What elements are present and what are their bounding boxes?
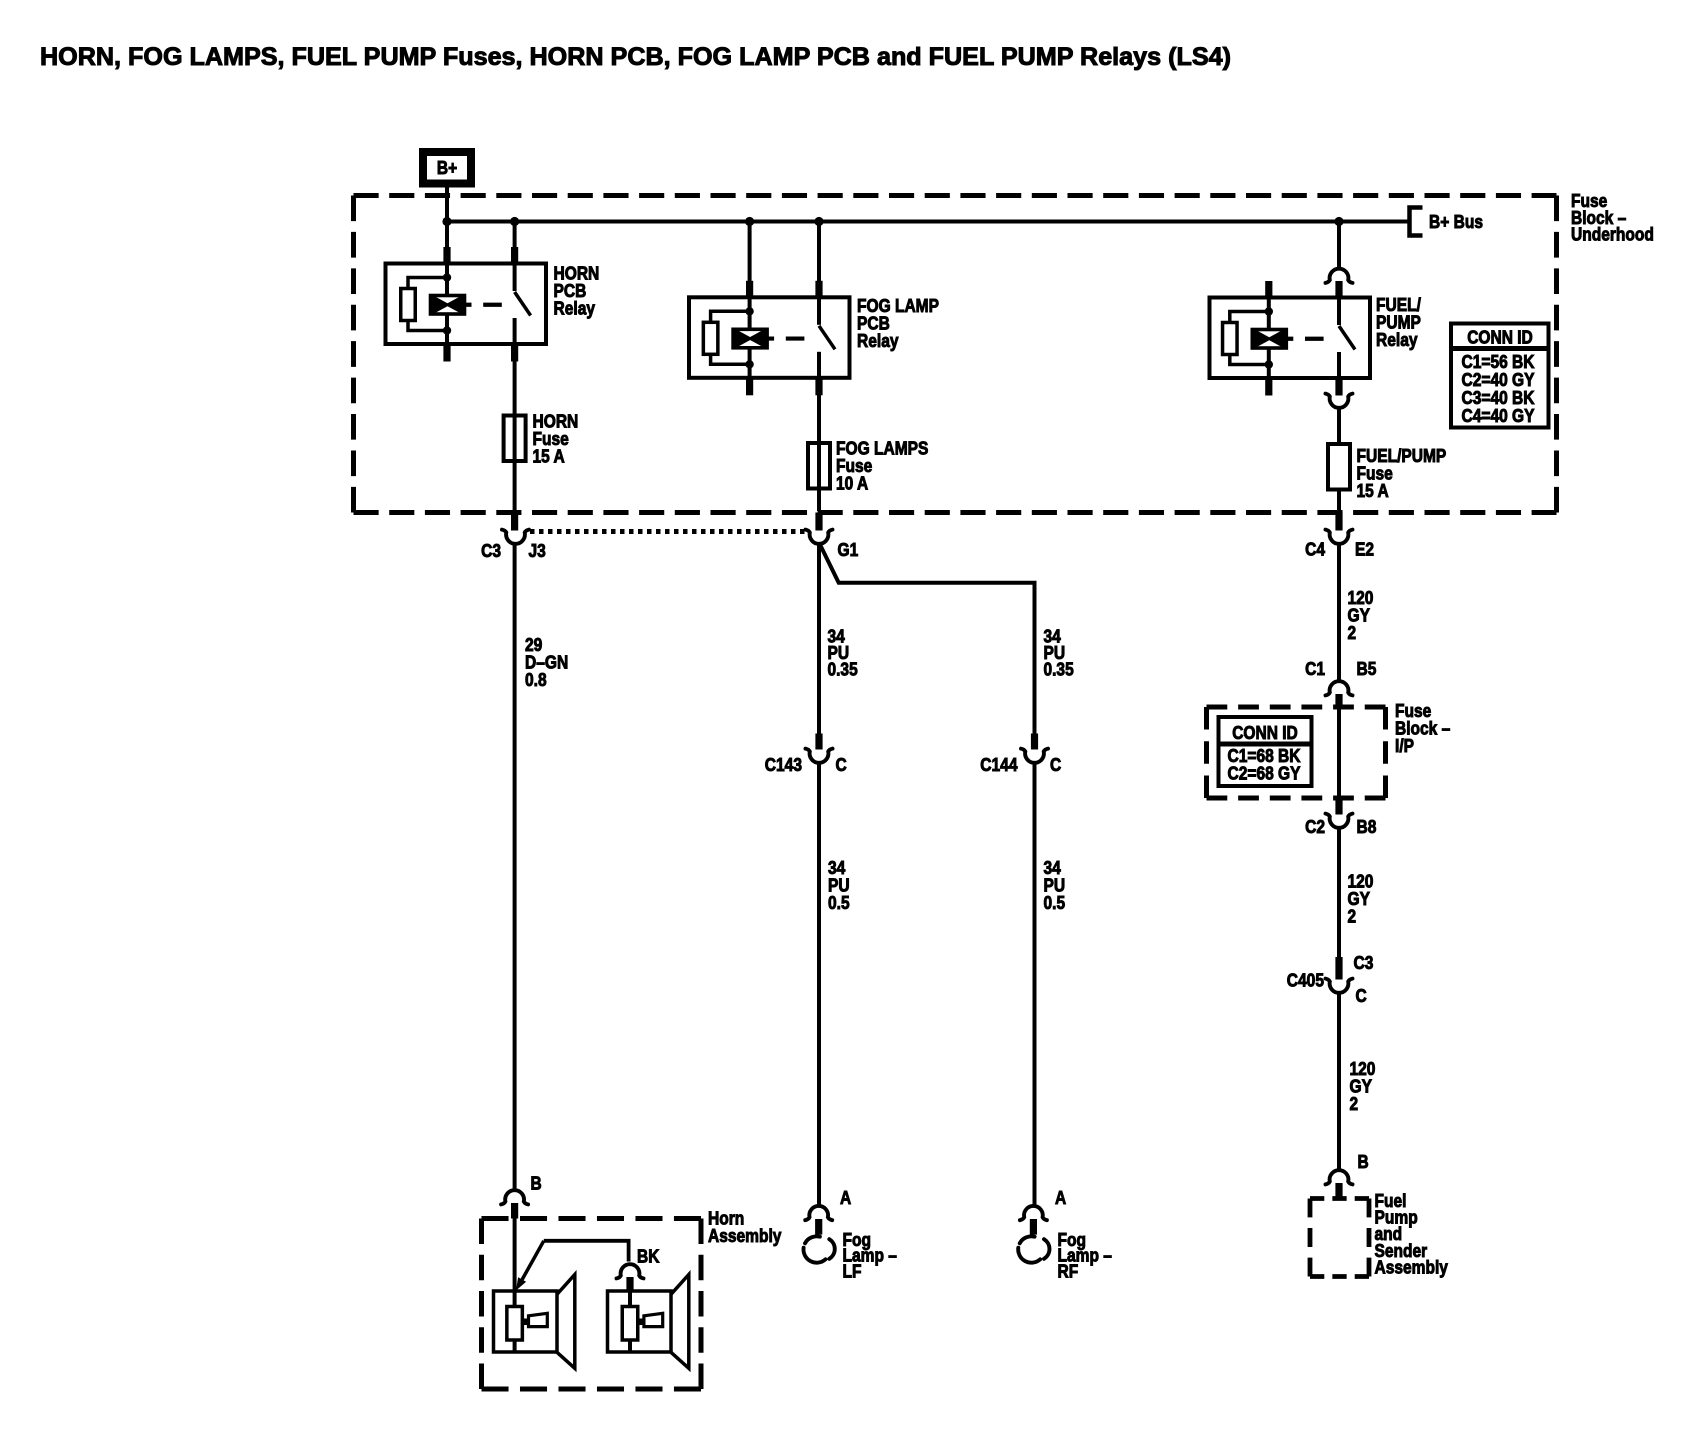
connector BK arch — [617, 1264, 644, 1278]
label wire 120 GY 2 third — [1350, 1058, 1376, 1114]
svg-text:0.35: 0.35 — [1044, 659, 1074, 680]
horn link diagonal with arrow — [522, 1241, 544, 1280]
label fuel pump fuse — [1357, 445, 1447, 501]
wire bus to fuel relay connector — [1337, 222, 1341, 269]
wire bus to fog relay coil — [748, 222, 752, 283]
wire BK to horn 2 — [628, 1292, 632, 1308]
B+ bus wire — [447, 220, 1409, 224]
label horn pcb relay — [554, 263, 600, 319]
junction dot fuel branch — [1334, 217, 1343, 226]
svg-text:0.5: 0.5 — [828, 892, 850, 913]
connector B horn arch — [501, 1190, 528, 1204]
svg-text:Assembly: Assembly — [708, 1225, 782, 1246]
connector C405 cup — [1326, 979, 1353, 993]
svg-text:Relay: Relay — [857, 330, 899, 351]
svg-text:Relay: Relay — [1376, 329, 1418, 350]
svg-text:G1: G1 — [838, 539, 859, 560]
wire fuel fuse to border — [1337, 490, 1341, 512]
connector C143 cup — [806, 749, 833, 763]
label wire 34 PU 0.5 right — [1044, 857, 1066, 913]
B+ bus terminal bracket — [1410, 208, 1423, 236]
svg-text:HORN, FOG LAMPS, FUEL PUMP Fus: HORN, FOG LAMPS, FUEL PUMP Fuses, HORN P… — [40, 43, 1231, 71]
svg-text:C: C — [1356, 985, 1367, 1006]
svg-text:2: 2 — [1350, 1093, 1359, 1114]
svg-text:C4=40 GY: C4=40 GY — [1462, 405, 1536, 426]
svg-text:RF: RF — [1058, 1260, 1079, 1281]
junction dot fog coil — [745, 217, 754, 226]
svg-text:CONN ID: CONN ID — [1467, 327, 1533, 348]
fuse block underhood dashed border — [354, 193, 1557, 198]
lamp Fog Lamp LF — [803, 1187, 896, 1281]
svg-text:C: C — [836, 754, 847, 775]
connector arch above fuel relay — [1326, 269, 1353, 283]
svg-text:B+ Bus: B+ Bus — [1429, 211, 1483, 232]
fuse block IP dashed border — [1207, 705, 1386, 710]
fuse FOG LAMPS 10A — [808, 443, 830, 489]
wire C405 to fuel pump — [1337, 992, 1341, 1171]
wire E2 to B5 — [1337, 543, 1341, 682]
connector G1 cup — [806, 530, 833, 544]
battery terminal B+ — [423, 152, 471, 184]
lamp Fog Lamp RF — [1018, 1187, 1112, 1281]
connector C3/J3 cup — [502, 530, 529, 544]
fuel pump assembly dashed box — [1310, 1196, 1369, 1201]
svg-text:I/P: I/P — [1395, 735, 1414, 756]
connector B horn stub — [511, 1203, 518, 1219]
label fog lamp pcb relay — [857, 295, 939, 351]
branch wire G1 to C144 — [819, 543, 1035, 734]
label fog lamps fuse — [836, 438, 928, 494]
svg-text:C4: C4 — [1305, 539, 1325, 560]
wire horn fuse to horn assembly — [513, 543, 517, 1191]
wire B+ to bus — [445, 188, 449, 222]
svg-text:C1: C1 — [1305, 658, 1325, 679]
svg-text:B+: B+ — [437, 157, 457, 178]
label fuse block IP — [1395, 700, 1450, 756]
svg-text:Relay: Relay — [554, 298, 596, 319]
conn id table underhood — [1451, 324, 1549, 428]
conn id table IP — [1219, 717, 1312, 786]
relay FOG LAMP PCB — [689, 281, 850, 396]
label wire 34 PU 0.35 left — [828, 626, 858, 680]
label wire 29 D-GN 0.8 — [525, 634, 568, 690]
svg-text:J3: J3 — [529, 540, 546, 561]
connector G1 stub — [815, 513, 822, 531]
connector C4/E2 stub — [1335, 513, 1342, 531]
connector C1/B5 stub — [1335, 694, 1342, 708]
svg-text:BK: BK — [637, 1246, 660, 1267]
connector C143 stub — [815, 734, 822, 750]
label fuel pump relay — [1376, 294, 1421, 350]
svg-text:B: B — [531, 1173, 542, 1194]
horn internal link wire — [544, 1241, 629, 1262]
svg-text:E2: E2 — [1355, 539, 1374, 560]
connector B fuel arch — [1326, 1170, 1353, 1184]
svg-text:Underhood: Underhood — [1571, 224, 1654, 245]
svg-text:2: 2 — [1348, 906, 1357, 927]
label wire 120 GY 2 second — [1348, 871, 1374, 927]
connector C2/B8 cup — [1326, 814, 1353, 828]
dotted connector line C3 to G1 — [530, 529, 806, 534]
wire inside fuse block IP — [1337, 708, 1341, 798]
svg-text:C2: C2 — [1305, 816, 1325, 837]
svg-text:2: 2 — [1348, 622, 1357, 643]
svg-text:10 A: 10 A — [836, 473, 868, 494]
junction dot fog switch — [814, 217, 823, 226]
connector C405 stub — [1335, 957, 1342, 980]
label wire 34 PU 0.5 left — [828, 857, 850, 913]
svg-text:0.35: 0.35 — [828, 659, 858, 680]
label wire 120 GY 2 first — [1348, 587, 1374, 643]
svg-text:Assembly: Assembly — [1375, 1256, 1449, 1277]
svg-text:C405: C405 — [1287, 970, 1324, 991]
label fuse block underhood — [1571, 190, 1654, 245]
connector C1/B5 arch — [1326, 681, 1353, 695]
wire fuel relay to fuse — [1337, 407, 1341, 445]
svg-text:C143: C143 — [765, 754, 802, 775]
label horn fuse — [533, 411, 579, 467]
connector C3/J3 stub — [511, 513, 518, 531]
wire fog relay to fuse — [817, 395, 821, 512]
connector C144 cup — [1021, 749, 1048, 763]
svg-text:C: C — [1050, 754, 1061, 775]
svg-text:C3: C3 — [481, 540, 501, 561]
junction dot horn switch — [510, 217, 519, 226]
connector BK stub — [626, 1277, 633, 1292]
wire B8 to C405 — [1337, 827, 1341, 958]
svg-text:15 A: 15 A — [533, 446, 565, 467]
connector B fuel stub — [1335, 1183, 1342, 1199]
svg-text:C2=68 GY: C2=68 GY — [1228, 763, 1302, 784]
svg-text:B5: B5 — [1357, 658, 1377, 679]
horn 1 — [494, 1275, 575, 1369]
relay HORN PCB — [386, 247, 547, 362]
svg-text:0.5: 0.5 — [1044, 892, 1066, 913]
svg-text:LF: LF — [843, 1260, 862, 1281]
svg-text:0.8: 0.8 — [525, 669, 547, 690]
svg-text:A: A — [1055, 1187, 1066, 1208]
wire C144 to fog lamp RF — [1033, 762, 1037, 1207]
connector C144 stub — [1031, 734, 1038, 750]
label fuel pump assembly — [1375, 1190, 1449, 1277]
wire horn relay to fuse — [513, 361, 517, 511]
fuse HORN 15A — [504, 416, 526, 462]
wire C143 to fog lamp LF — [817, 762, 821, 1207]
horn 2 — [608, 1275, 689, 1369]
svg-text:C144: C144 — [980, 754, 1018, 775]
junction dot horn coil — [442, 217, 451, 226]
svg-text:CONN ID: CONN ID — [1232, 722, 1298, 743]
connector C4/E2 cup — [1326, 530, 1353, 544]
connector cup below fuel relay — [1326, 394, 1353, 408]
horn assembly dashed box — [482, 1216, 702, 1221]
connector C2/B8 stub — [1335, 798, 1342, 815]
wire into horn assembly — [513, 1219, 517, 1308]
svg-text:A: A — [840, 1187, 851, 1208]
wire G1 to C143 — [817, 543, 821, 734]
wire bus to horn relay coil — [445, 222, 449, 249]
relay FUEL PUMP — [1210, 281, 1371, 396]
label horn assembly — [708, 1208, 782, 1247]
wire bus to fog relay switch — [817, 222, 821, 283]
svg-text:C3: C3 — [1354, 952, 1374, 973]
svg-text:B: B — [1358, 1151, 1369, 1172]
label wire 34 PU 0.35 right — [1044, 626, 1074, 680]
svg-text:B8: B8 — [1357, 816, 1377, 837]
fuse FUEL/PUMP 15A — [1328, 444, 1350, 490]
svg-text:15 A: 15 A — [1357, 480, 1389, 501]
wire bus to horn relay switch — [513, 222, 517, 249]
